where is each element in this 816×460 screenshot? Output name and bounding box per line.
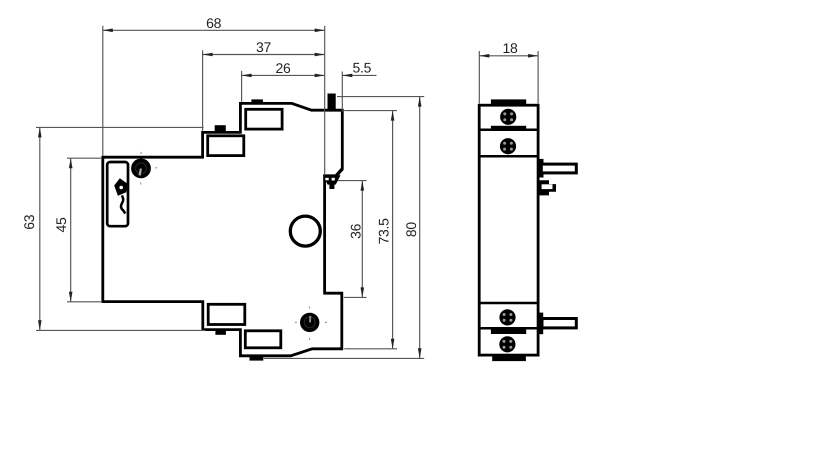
dimension 68 (103, 15, 325, 32)
front view bar B3 (491, 329, 526, 334)
svg-text:36: 36 (348, 223, 364, 238)
svg-text:37: 37 (256, 39, 271, 55)
dimension 63 (21, 127, 42, 330)
dimension 5.5 (342, 60, 376, 78)
front view section line L2 (479, 128, 538, 131)
extension line 45 top (67, 157, 101, 159)
front view bar B1 (491, 99, 526, 105)
dimension 18 (479, 40, 538, 57)
svg-text:5.5: 5.5 (353, 60, 372, 76)
dimension 73.5 (375, 111, 394, 349)
svg-text:26: 26 (276, 60, 291, 76)
front view section line L5 (479, 327, 538, 330)
screw S3 (499, 309, 515, 325)
extension line 63 bottom (36, 329, 206, 331)
center marks K1 (141, 152, 158, 185)
tab T2 on top edge (251, 99, 263, 104)
svg-text:68: 68 (206, 15, 221, 31)
front view section line L3 (479, 155, 538, 158)
screw S4 (499, 336, 515, 352)
svg-text:80: 80 (403, 222, 419, 237)
extension line 73.5 top (344, 110, 397, 112)
extension line 80 bottom (264, 357, 424, 359)
svg-text:63: 63 (21, 214, 37, 229)
extension line 80 top (337, 96, 424, 98)
extension line 45 bottom (67, 301, 101, 303)
svg-text:73.5: 73.5 (375, 218, 391, 245)
tab T4 below lower step (215, 329, 226, 335)
svg-text:45: 45 (53, 217, 69, 232)
extension line 5.5 right (341, 72, 343, 112)
terminal opening R4 (245, 331, 280, 348)
center marks K2 (295, 306, 327, 340)
pin P2 (539, 313, 577, 335)
big circle (290, 216, 320, 246)
knob K1 (131, 159, 151, 179)
front view extension line 18 left (478, 51, 480, 104)
pin P1 (538, 159, 576, 178)
front view section line L4 (479, 302, 538, 305)
dimension 37 (203, 39, 325, 56)
extension line shared right (68/37/26) (324, 26, 326, 177)
dimension 26 (242, 60, 325, 77)
terminal opening R3 (208, 304, 245, 324)
tab T1 on upper step (215, 125, 226, 133)
extension line 37 left (202, 50, 204, 131)
clip pawl (114, 178, 127, 196)
front view extension line 18 right (537, 51, 539, 104)
knob K2 (300, 313, 319, 332)
dimension 36 (348, 181, 365, 298)
dimension 45 (53, 158, 72, 302)
tab T3 top right (328, 94, 336, 112)
clip spring squiggle (121, 195, 125, 213)
extension line 36 bottom (344, 296, 367, 298)
extension line 63 top (36, 126, 204, 128)
dimension 80 (403, 97, 422, 359)
clip stub (538, 180, 556, 195)
front view body (479, 105, 538, 355)
extension line 26 left (241, 71, 243, 102)
front view bar B2 (491, 126, 526, 130)
front view bar B4 (492, 356, 526, 361)
terminal opening R1 (208, 136, 244, 156)
screw S2 (500, 138, 516, 154)
DIN clip slot (107, 162, 128, 226)
screw S1 (500, 109, 516, 125)
latch nose on right edge (323, 169, 343, 189)
tab T5 below bottom edge (250, 356, 264, 361)
extension line 36 top (327, 180, 367, 182)
side view body outline (103, 103, 342, 355)
svg-text:18: 18 (503, 40, 518, 56)
terminal opening R2 (246, 109, 282, 129)
extension line 68 left (102, 26, 104, 156)
extension line 73.5 bottom (344, 348, 397, 350)
